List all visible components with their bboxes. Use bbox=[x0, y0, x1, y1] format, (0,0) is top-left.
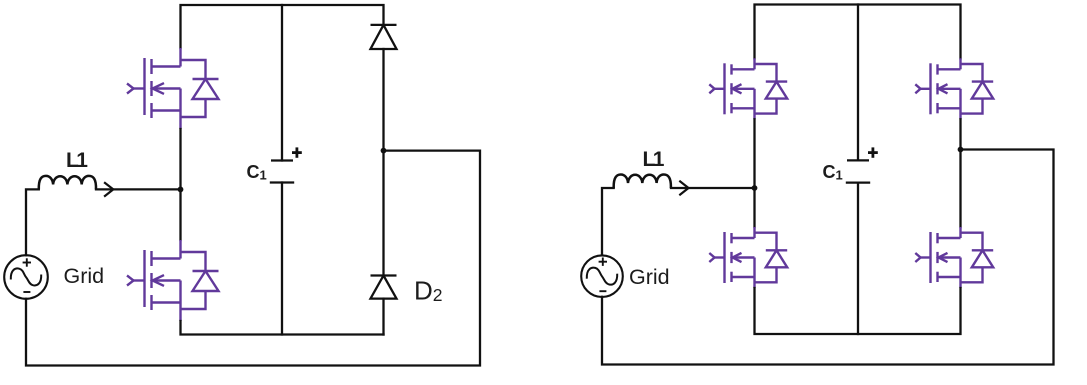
AC source Grid (right circuit) bbox=[581, 255, 623, 297]
wire: left top rail with left leg upper segment bbox=[181, 5, 384, 48]
svg-text:L1: L1 bbox=[643, 148, 665, 171]
diode D1 (top right, unlabeled) bbox=[371, 25, 397, 49]
node A junction dot bbox=[381, 148, 387, 154]
wire: C1 top lead bbox=[281, 5, 283, 161]
wire: left leg between Q1 and Q2 bbox=[179, 129, 181, 240]
capacitor C1 (left circuit) bbox=[270, 161, 294, 183]
svg-text:Grid: Grid bbox=[64, 264, 105, 288]
wire: left leg bottom and bottom rail bbox=[181, 321, 384, 335]
AC source Grid (left circuit) bbox=[4, 255, 48, 299]
inductor L1 (left circuit) bbox=[39, 176, 96, 190]
midpoint node dot (left circuit) bbox=[178, 187, 184, 193]
wire: right C1 top lead bbox=[857, 5, 859, 161]
svg-text:Grid: Grid bbox=[629, 265, 670, 289]
wire: inductor to midpoint node bbox=[96, 188, 181, 190]
current arrow (right circuit) bbox=[679, 181, 688, 195]
MOSFET Q6 (right circuit, right leg low side) with body diode bbox=[915, 227, 993, 288]
wire: right C1 bottom lead bbox=[857, 183, 859, 334]
midpoint node dot (right circuit) bbox=[752, 185, 758, 191]
wire: D2 anode to bottom rail bbox=[382, 299, 384, 335]
wire: node A to right branch, down and return to grid bbox=[26, 151, 480, 366]
svg-text:L1: L1 bbox=[66, 149, 88, 172]
MOSFET Q3 (right circuit, left leg high side) with body diode bbox=[709, 58, 787, 119]
C1 polarity + (right circuit) bbox=[868, 147, 878, 157]
wire: right circuit left leg middle bbox=[753, 119, 755, 227]
wire: inductor to midpoint node (right circuit) bbox=[671, 187, 755, 189]
MOSFET Q5 (right circuit, left leg low side) with body diode bbox=[709, 227, 787, 288]
MOSFET Q4 (right circuit, right leg high side) with body diode bbox=[915, 58, 993, 119]
wire: D1 anode to node A bbox=[382, 49, 384, 151]
right leg node dot (right circuit) bbox=[958, 147, 964, 153]
wire: inductor left lead down to grid source bbox=[26, 189, 39, 255]
capacitor C1 (right circuit) bbox=[846, 160, 870, 182]
wire: right top rail with both leg upper segments bbox=[755, 5, 961, 59]
wire: right circuit legs bottom and bottom rail bbox=[755, 288, 961, 334]
wire: inductor left lead down to grid source (right circuit) bbox=[602, 188, 614, 255]
wire: C1 bottom lead bbox=[281, 183, 283, 335]
MOSFET Q1 (left circuit, high side) with body diode bbox=[127, 48, 219, 129]
diode D2 bbox=[371, 276, 397, 299]
C1 polarity + (left circuit) bbox=[292, 147, 302, 157]
MOSFET Q2 (left circuit, low side) with body diode bbox=[127, 240, 219, 321]
wire: right circuit right leg middle bbox=[959, 119, 961, 227]
wire: node A down to D2 cathode bbox=[382, 151, 384, 276]
inductor L1 (right circuit) bbox=[614, 175, 671, 189]
wire: right leg node to outer branch and return to grid bbox=[602, 150, 1054, 365]
current arrow (left circuit) bbox=[104, 182, 113, 196]
